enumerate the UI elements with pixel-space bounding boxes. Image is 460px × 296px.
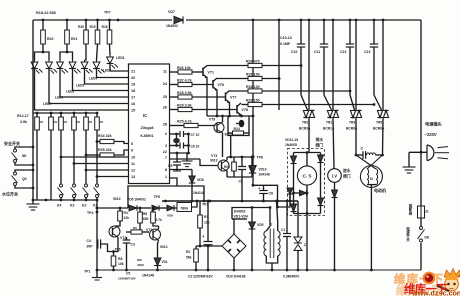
wire switch common row [33, 199, 97, 201]
svg-text:LED3: LED3 [66, 90, 74, 94]
svg-text:R1: R1 [77, 120, 81, 124]
wire valve to bottom bus [306, 214, 308, 271]
svg-text:R6: R6 [143, 212, 147, 216]
bridge rectifier VD1-VD4 [222, 234, 246, 258]
svg-text:LED5: LED5 [76, 84, 84, 88]
wire transformer primary top [266, 208, 270, 232]
svg-text:阀门: 阀门 [316, 143, 324, 148]
wire IC pin to key switch column [97, 176, 129, 178]
svg-text:K4: K4 [57, 204, 61, 208]
capacitor C9 [241, 157, 243, 167]
diode VD7 on top bus [174, 16, 183, 23]
wire motor to bottom bus [370, 185, 372, 270]
svg-text:12k: 12k [204, 221, 210, 225]
resistor R1 12k [199, 201, 201, 215]
wire VT5 emitter [222, 133, 224, 158]
svg-text:QK: QK [22, 177, 27, 181]
transistor VT1 9013 [150, 229, 161, 240]
svg-text:R4: R4 [124, 211, 128, 215]
ground left [32, 200, 34, 204]
transistor VT7 driver [225, 93, 227, 102]
svg-text:7: 7 [165, 156, 167, 160]
svg-text:9013: 9013 [210, 159, 218, 163]
capacitor electrolytic in box [239, 120, 245, 128]
wire plug to rail [409, 151, 427, 153]
switch K4 [60, 184, 63, 187]
capacitor C13 [373, 19, 376, 22]
wire R21 split to LED pair [60, 44, 67, 60]
svg-text:D: D [370, 176, 373, 181]
wire VT3 top rail [227, 156, 253, 158]
wire IC pin to key switch column [86, 169, 129, 171]
diode VD13 horizontal [294, 192, 300, 194]
svg-text:VD8: VD8 [197, 178, 204, 182]
regulator 7806 [177, 203, 192, 212]
resistor R12-17 member [85, 112, 88, 115]
svg-text:R1: R1 [100, 120, 104, 124]
wire pin2 [170, 133, 180, 135]
wire valve center down [306, 185, 308, 213]
svg-text:K2: K2 [82, 204, 86, 208]
svg-text:1N4148: 1N4148 [193, 191, 205, 195]
svg-text:6: 6 [131, 142, 133, 146]
svg-text:19: 19 [131, 83, 135, 87]
capacitor C1b [286, 201, 288, 233]
svg-text:56k: 56k [186, 256, 192, 260]
svg-text:VD11-15: VD11-15 [285, 138, 298, 142]
svg-text:1N4005: 1N4005 [285, 143, 297, 147]
svg-text:C. S: C. S [303, 174, 312, 179]
resistor R2 56k [195, 246, 197, 249]
wire VD8 to TP5 rail [191, 183, 193, 201]
wire VT5 collector [222, 116, 224, 123]
resistor R12-17 member [96, 112, 99, 115]
wire resistor to common [36, 130, 38, 200]
svg-text:VT8: VT8 [242, 108, 248, 112]
svg-text:C10: C10 [291, 50, 297, 54]
svg-text:16: 16 [131, 102, 135, 106]
resistor R19 [96, 19, 99, 22]
watermark round badge [423, 272, 436, 285]
diode VD11 [293, 153, 295, 157]
svg-text:TP7: TP7 [104, 11, 111, 15]
svg-text:9: 9 [131, 149, 133, 153]
svg-text:VD5: VD5 [257, 223, 264, 227]
svg-text:R18-22 680: R18-22 680 [36, 11, 56, 15]
svg-text:R34 32k: R34 32k [98, 134, 112, 138]
wire top supply bus [33, 19, 172, 21]
wire resistor to key switch [85, 130, 87, 184]
svg-text:电源开关: 电源开关 [406, 226, 410, 242]
wire TR5 gate diagonal [374, 95, 382, 110]
wire TR5 to motor [382, 119, 385, 155]
switch K2 [85, 184, 88, 187]
capacitor C7 [179, 131, 181, 137]
svg-text:10: 10 [131, 156, 135, 160]
wire TR2 gate diagonal [301, 95, 308, 110]
wire valve bottom rail [294, 213, 321, 215]
svg-text:WA: WA [137, 258, 143, 262]
svg-text:9013: 9013 [113, 197, 121, 201]
svg-text:R18: R18 [102, 25, 108, 29]
wire LED/keyboard row bus [33, 112, 97, 114]
wire TR1 gate diagonal [324, 95, 332, 110]
svg-text:KJ8901: KJ8901 [140, 134, 153, 138]
svg-text:VT5: VT5 [209, 118, 215, 122]
svg-text:K3: K3 [70, 204, 74, 208]
svg-text:C13: C13 [364, 50, 370, 54]
svg-text:C5: C5 [126, 272, 130, 276]
switch water-level 水位开关 [15, 170, 33, 172]
svg-text:22k: 22k [124, 216, 130, 220]
svg-text:R1: R1 [64, 120, 68, 124]
svg-text:I.V: I.V [332, 174, 337, 179]
wire y246 rail [196, 245, 222, 247]
wire emitter common bus [207, 115, 253, 117]
svg-text:0.3M/400V: 0.3M/400V [283, 275, 300, 279]
wire motor bottom bar [367, 184, 376, 186]
switch DK 电源开关 [418, 226, 424, 243]
resistor R18 [108, 19, 111, 22]
diode VD8 [191, 170, 193, 177]
wire resistor to key switch [60, 130, 62, 184]
resistor R20 [85, 19, 88, 22]
resistor R12-17 member [50, 112, 53, 115]
svg-text:VD1: VD1 [162, 260, 168, 264]
svg-text:R20: R20 [78, 25, 84, 29]
svg-text:C: C [361, 147, 364, 151]
svg-text:DK: DK [425, 236, 430, 240]
svg-text:R1: R1 [54, 120, 58, 124]
diode VD16 [334, 182, 336, 190]
svg-text:LED9: LED9 [89, 77, 97, 81]
svg-text:4002: 4002 [137, 263, 144, 267]
resistor R12-17 member [60, 112, 63, 115]
wire LED cathode to IC pin [49, 69, 129, 104]
wire 7806 output [192, 201, 198, 207]
svg-text:15: 15 [131, 109, 135, 113]
LED indicator [84, 60, 86, 62]
svg-text:VD9 1N4148: VD9 1N4148 [226, 275, 246, 279]
svg-text:8: 8 [165, 168, 167, 172]
svg-text:C10-13: C10-13 [280, 36, 292, 40]
svg-text:R1: R1 [40, 120, 44, 124]
svg-text:R24: R24 [234, 127, 240, 131]
svg-text:VT1: VT1 [208, 71, 214, 75]
triac TR5 BCR8A [382, 19, 385, 22]
svg-text:TR3: TR3 [349, 121, 355, 125]
svg-text:VD1-VD4: VD1-VD4 [234, 214, 248, 218]
svg-text:水位开关: 水位开关 [1, 191, 18, 197]
wire TP4 rail [96, 200, 98, 270]
crystal XT [176, 134, 178, 138]
svg-text:R35 32k: R35 32k [98, 148, 112, 152]
wire bridge bottom [233, 258, 235, 270]
svg-text:R22: R22 [47, 37, 53, 41]
wire vertical x253 from top bus through TP8 [252, 20, 254, 166]
svg-text:1N4148: 1N4148 [142, 274, 154, 278]
svg-text:0.1MF: 0.1MF [280, 42, 291, 46]
wire TR1 to inlet valve [333, 119, 334, 169]
capacitor C2 electrolytic [207, 201, 209, 241]
svg-text:U1: U1 [425, 210, 429, 214]
svg-text:R8: R8 [118, 257, 122, 261]
wire crystal caps common [188, 134, 190, 153]
svg-text:VD9: VD9 [167, 214, 173, 218]
fuse 熔断器 [418, 206, 425, 218]
wire R20 to LED [85, 44, 87, 60]
op-amp IC Zilog z8 microcontroller U1 [129, 64, 170, 184]
wire valve top rail [294, 152, 321, 154]
svg-text:2.9k: 2.9k [20, 120, 27, 124]
svg-text:C3: C3 [131, 243, 135, 247]
transistor VT8 driver [236, 105, 238, 114]
transistor VT3 9013 [218, 160, 229, 171]
wire LED cathode to IC pin [35, 69, 129, 110]
svg-text:13: 13 [131, 175, 135, 179]
resistor R6 680 [139, 207, 142, 210]
diode VD12 [320, 153, 322, 156]
wire R19 to LED [97, 44, 98, 60]
dashed enclosure drain valve [288, 149, 325, 216]
wire pin7 [170, 158, 201, 160]
svg-text:21: 21 [131, 70, 135, 74]
LED LED1 [109, 55, 111, 57]
svg-text:C2 2200MF/16V: C2 2200MF/16V [188, 275, 213, 279]
svg-text:R23: R23 [224, 165, 230, 169]
svg-text:安全开关: 安全开关 [4, 140, 20, 146]
svg-text:11: 11 [131, 162, 135, 166]
svg-text:C11: C11 [314, 50, 320, 54]
svg-text:VD6 1N4002: VD6 1N4002 [127, 198, 146, 202]
wire R22 split to LED pair [35, 44, 44, 60]
svg-text:LED1: LED1 [116, 56, 125, 60]
wire VT3 base [200, 159, 218, 166]
ground near C5 [186, 153, 188, 161]
svg-text:R12-17: R12-17 [17, 114, 29, 118]
transistor VT6 driver [212, 80, 214, 89]
capacitor C10 [300, 19, 303, 22]
diode VD9a [152, 205, 159, 211]
svg-text:TR2: TR2 [302, 121, 308, 125]
wire bridge top loop [232, 219, 234, 234]
svg-text:TP6: TP6 [115, 248, 121, 252]
wire VD5 to bus [251, 229, 253, 246]
solenoid drain valve C.S [297, 166, 316, 185]
svg-text:IC: IC [143, 113, 147, 118]
diode VD15 [318, 198, 324, 206]
wire LED cathode to IC pin [60, 69, 129, 97]
svg-text:R19: R19 [90, 25, 96, 29]
wire resistor to common [50, 130, 52, 200]
capacitor C8 electrolytic [263, 185, 265, 190]
wire box to VT3 rail [230, 136, 232, 158]
wire transformer bottoms [266, 256, 277, 263]
svg-text:TP5: TP5 [154, 195, 160, 199]
svg-text:VT1: VT1 [146, 228, 152, 232]
wire motor crossed leads [356, 155, 376, 169]
svg-text:排水: 排水 [316, 137, 324, 142]
svg-text:TP8: TP8 [257, 156, 263, 160]
svg-text:25: 25 [163, 95, 167, 99]
svg-text:680: 680 [143, 217, 149, 221]
svg-text:LED4: LED4 [43, 102, 51, 106]
svg-text:17: 17 [131, 96, 135, 100]
svg-text:www.dzsc.com: www.dzsc.com [411, 289, 460, 296]
wire LED cathode to IC pin [85, 69, 129, 84]
LED indicator [72, 60, 74, 62]
svg-text:进水: 进水 [343, 168, 351, 173]
svg-text:30P: 30P [87, 245, 94, 249]
svg-text:R21: R21 [71, 37, 77, 41]
svg-text:26: 26 [163, 106, 167, 110]
resistor R12-17 member [36, 112, 39, 115]
wire VT1 collector [158, 226, 160, 229]
svg-text:1N4002: 1N4002 [166, 24, 178, 28]
wire inlet valve to bottom bus [334, 198, 336, 271]
diode VD14 [293, 193, 295, 204]
svg-text:Z: Z [304, 243, 306, 247]
svg-text:2.7k: 2.7k [156, 218, 163, 222]
svg-text:R2: R2 [186, 250, 190, 254]
wire VT3 emitter [226, 171, 228, 177]
watermark mascot [437, 269, 460, 292]
svg-text:LED2: LED2 [103, 69, 111, 73]
resistor R12-17 member [73, 112, 76, 115]
wire resistor to key switch [73, 130, 75, 184]
svg-text:1: 1 [165, 175, 167, 179]
svg-text:NK: NK [22, 154, 27, 158]
svg-text:VD7: VD7 [168, 10, 175, 14]
diode VD6 [129, 205, 137, 211]
wire y186 to rail vertical [177, 186, 204, 201]
transistor VT5 9013 [214, 123, 224, 133]
resistor R4 22k [119, 207, 122, 210]
solenoid inlet valve I.V [328, 169, 342, 183]
triac TR3 BCR8A [355, 19, 358, 22]
resistor R7 2.7k [152, 207, 155, 210]
svg-text:R5: R5 [133, 226, 137, 230]
svg-text:18: 18 [131, 89, 135, 93]
LED indicator [34, 60, 36, 62]
triac TR1 BCR1A [332, 19, 335, 22]
wire IC pin to key switch column [61, 156, 129, 158]
svg-text:~220V: ~220V [425, 132, 437, 137]
diode VD9b [159, 207, 167, 209]
svg-text:TR5: TR5 [376, 121, 382, 125]
svg-text:VT3: VT3 [211, 154, 217, 158]
svg-text:VD10: VD10 [259, 168, 267, 172]
wire TR2 to valve [308, 119, 310, 153]
wire transformer secondary top [277, 201, 278, 231]
snubber box with R24 [228, 116, 249, 136]
svg-text:TR1: TR1 [326, 121, 332, 125]
svg-text:20: 20 [131, 76, 135, 80]
svg-text:R1: R1 [89, 120, 93, 124]
svg-text:C4: C4 [87, 239, 91, 243]
svg-text:28: 28 [163, 123, 167, 127]
LED indicator [59, 60, 61, 62]
svg-text:LED6: LED6 [55, 96, 63, 100]
wire base rail y208 [97, 207, 128, 209]
wire VT3 collector [226, 157, 228, 160]
svg-text:电源插头: 电源插头 [425, 121, 443, 128]
wire pin3 [170, 145, 180, 147]
svg-text:熔断器: 熔断器 [408, 203, 413, 215]
diode VD5 [251, 208, 253, 223]
svg-text:C12: C12 [340, 50, 346, 54]
svg-text:C5: C5 [168, 164, 172, 168]
wire TR3 gate diagonal [350, 95, 355, 110]
zener pair bidirectional [297, 201, 299, 237]
wire LED cathode to IC pin [110, 64, 129, 71]
LED indicator [96, 60, 98, 62]
resistor R5 [131, 230, 142, 234]
svg-text:Zilogz8: Zilogz8 [140, 126, 153, 130]
wire trio to rail [241, 177, 243, 201]
wire TP8 branch to rail [253, 185, 278, 201]
diode VD17 [251, 157, 253, 166]
capacitor C6 [179, 143, 181, 149]
svg-text:电动机: 电动机 [374, 187, 386, 193]
resistor R21 [66, 19, 69, 22]
wire valve aux join [278, 194, 291, 207]
wire VT2 emitter [114, 237, 119, 252]
wire pin1 loop [128, 178, 177, 208]
power plug [426, 145, 428, 161]
transistor VT1 driver [202, 68, 204, 77]
svg-text:C6 10: C6 10 [191, 145, 200, 149]
svg-text:12: 12 [131, 169, 135, 173]
switch K3 [73, 184, 76, 187]
wire IC pin to key switch column [74, 163, 129, 165]
triac TR2 BCR3A [308, 19, 311, 22]
LED indicator [48, 60, 50, 62]
svg-text:C8: C8 [269, 192, 273, 196]
svg-text:3: 3 [165, 144, 167, 148]
svg-text:VT7: VT7 [230, 96, 236, 100]
capacitor C3 [126, 237, 128, 240]
svg-text:C1: C1 [281, 228, 285, 232]
svg-text:11: 11 [163, 70, 167, 74]
ground plug earth [408, 152, 410, 167]
resistor R23 [233, 157, 235, 162]
svg-text:22: 22 [163, 150, 167, 154]
svg-text:1N4148: 1N4148 [259, 173, 270, 177]
wire R18 to LED1 [109, 44, 112, 55]
svg-text:9013: 9013 [160, 245, 168, 249]
svg-text:1000MF/10V: 1000MF/10V [118, 277, 137, 281]
wire right rail [420, 20, 422, 270]
wire bottom bus [97, 269, 421, 271]
ground TP1 stub [96, 270, 98, 277]
resistor R8 10k [113, 252, 115, 257]
motor 电动机 D [360, 166, 382, 188]
wire LED cathode to IC pin [97, 69, 129, 78]
svg-text:2: 2 [165, 132, 167, 136]
svg-text:TP4: TP4 [87, 211, 93, 215]
wire pin22 [170, 152, 189, 154]
capacitor C11 [323, 19, 326, 22]
svg-text:VT6: VT6 [218, 83, 224, 87]
diode VD10 1N4148 [250, 166, 256, 174]
capacitor C12 [349, 19, 352, 22]
switch K1 [96, 184, 99, 187]
wire VT3 bottom rail [227, 176, 252, 178]
wire gate feed x279 [278, 20, 280, 110]
svg-text:10k: 10k [118, 262, 124, 266]
svg-text:C7 10: C7 10 [191, 133, 200, 137]
